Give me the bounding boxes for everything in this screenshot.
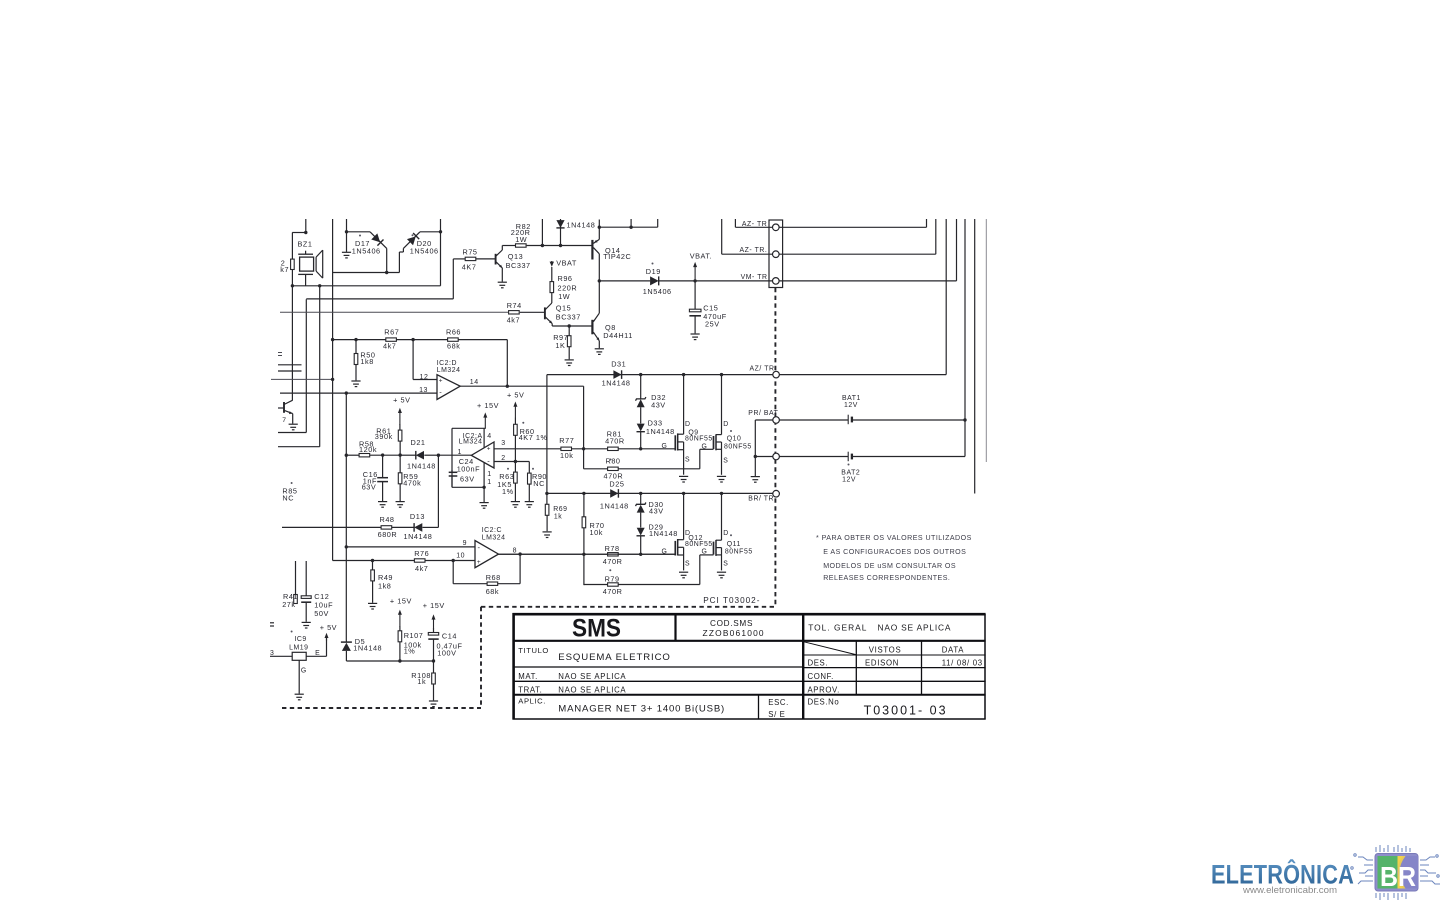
svg-text:TOL. GERAL: TOL. GERAL [808,623,867,633]
resistor R70 [583,493,585,516]
svg-text:4K7: 4K7 [462,262,477,271]
ground of Q11 [717,572,726,578]
wire BR/ TR vertical [974,219,976,494]
svg-text:1N4148: 1N4148 [404,532,433,541]
svg-text:R80: R80 [606,457,621,466]
svg-text:1k8: 1k8 [360,357,373,366]
svg-text:43V: 43V [649,506,664,515]
diode D33 [637,424,645,432]
svg-text:APROV.: APROV. [808,685,840,694]
svg-text:25V: 25V [705,320,720,329]
power +15V arrow at C14 [433,618,435,629]
node junction [398,453,401,456]
svg-text:D13: D13 [410,512,425,521]
svg-text:Q10: Q10 [727,436,742,443]
svg-text:80NF55: 80NF55 [724,444,752,451]
power +5V arrow at R60 [514,405,516,418]
wire D5 row [346,660,433,662]
ground of R59 [396,502,405,508]
capacitor C15 [694,281,696,309]
svg-text:+ 5V: + 5V [393,396,410,405]
transistor Q13 [495,254,497,265]
svg-text:VBAT: VBAT [556,259,577,268]
svg-text:1N4148: 1N4148 [649,529,678,538]
svg-text:D44H11: D44H11 [603,331,633,340]
svg-text:43V: 43V [651,401,666,410]
wire from R75 leg down to left stub [305,299,307,432]
wire long vertical x=332.6 [332,219,334,561]
svg-text:S: S [723,560,728,567]
ground of C15 [691,334,700,340]
resistor R48 [381,526,392,529]
svg-text:470R: 470R [603,557,623,566]
svg-text:4k7: 4k7 [415,564,428,573]
svg-text:1W: 1W [515,235,527,244]
svg-text:R66: R66 [446,327,461,336]
title block diagonal [804,642,856,655]
svg-text:NC: NC [533,479,545,488]
resistor R67 [333,339,386,341]
svg-text:G: G [301,667,307,674]
svg-text:7: 7 [282,417,286,424]
wire stub y=446.7 [278,446,320,448]
node junction [598,279,601,282]
wire AZ- TR net [734,219,736,227]
svg-text:10: 10 [456,553,465,560]
svg-text:1k8: 1k8 [378,582,391,591]
svg-text:ZZOB061000: ZZOB061000 [703,628,765,638]
svg-text:63V: 63V [362,483,377,492]
terminal battery tap [773,453,780,460]
ground of R50 [351,381,360,387]
svg-text:R75: R75 [463,247,478,256]
svg-text:R107: R107 [404,631,424,640]
svg-text:+: + [477,559,481,566]
svg-text:27k: 27k [282,600,295,609]
wire Q15 emitter to Q8 base [552,325,592,327]
terminal BR/ TR [773,490,780,497]
svg-text:R79: R79 [605,575,620,584]
svg-text:1k: 1k [554,513,562,520]
title block frame [513,613,986,616]
svg-text:4: 4 [487,433,491,440]
node junction [568,324,571,327]
svg-text:R69: R69 [553,506,567,513]
svg-text:R76: R76 [414,549,429,558]
svg-text:13: 13 [419,387,428,394]
svg-text:D19: D19 [646,267,661,276]
diode D13 [414,523,422,532]
svg-text:C14: C14 [442,631,457,640]
wire R79 to Q11 gate [699,555,701,585]
svg-text:D21: D21 [411,438,426,447]
svg-text:1N4148: 1N4148 [646,427,675,436]
capacitor C12 [305,561,307,596]
svg-text:S: S [685,561,690,568]
svg-text:Q13: Q13 [508,252,523,261]
node junction [541,244,544,247]
svg-text:G: G [702,549,708,556]
diode D31 [613,370,621,379]
resistor R108 [433,661,435,673]
stub mark at left edge [270,622,274,624]
resistor R60 [514,418,516,425]
svg-text:AZ/ TR: AZ/ TR [750,366,775,373]
wire IC9 G to ground [298,660,300,693]
node junction [963,418,966,421]
svg-text:R78: R78 [605,544,620,553]
resistor R66 [448,338,459,341]
node junction [598,226,601,229]
wire PR/BAT to ground net [755,419,773,421]
wire vertical x=319.7 [319,286,321,447]
svg-text:MODELOS DE uSM CONSULTAR OS: MODELOS DE uSM CONSULTAR OS [823,562,956,570]
svg-text:R96: R96 [558,274,573,283]
svg-text:+ 5V: + 5V [507,391,524,400]
stub marks at left edge [278,352,282,354]
svg-text:3: 3 [270,650,274,657]
svg-text:390k: 390k [375,432,393,441]
svg-text:S: S [723,457,728,464]
ground of IC9 [295,694,304,700]
wire AZ/ TR net [547,374,773,376]
svg-text:1N5406: 1N5406 [410,246,439,255]
svg-text:Q11: Q11 [727,541,741,548]
node junction [345,545,348,548]
wire IC2:D output [460,385,583,387]
svg-text:1k: 1k [417,677,426,686]
logo ELETRONICA BR [1211,845,1440,900]
connector box TR [769,220,783,288]
svg-text:9: 9 [463,540,467,547]
svg-text:BC337: BC337 [506,261,531,270]
svg-text:TITULO: TITULO [518,646,549,655]
ground of PR/BAT net [751,477,760,483]
svg-text:1N4148: 1N4148 [407,462,436,471]
svg-text:1: 1 [487,471,491,478]
wire to R75 leg [306,298,453,300]
svg-text:D: D [723,421,729,428]
svg-text:1: 1 [487,479,491,486]
zener diode D30 [636,503,646,507]
svg-text:COD.SMS: COD.SMS [710,619,753,628]
svg-text:120k: 120k [359,445,377,454]
svg-text:APLIC.: APLIC. [518,697,546,706]
wire stub y=379.4 [271,378,333,380]
scan edge vertical [985,219,987,462]
svg-text:80NF55: 80NF55 [685,541,713,548]
wire BAT1 vertical [964,219,966,457]
svg-text:AZ- TR: AZ- TR [742,221,767,228]
svg-text:LM324: LM324 [482,534,506,541]
wire VM- TR net right [779,280,956,282]
svg-text:1N5406: 1N5406 [352,246,381,255]
svg-text:RELEASES CORRESPONDENTES.: RELEASES CORRESPONDENTES. [823,574,950,582]
svg-text:80NF55: 80NF55 [725,549,753,556]
resistor R76 [414,559,425,562]
node junction [514,460,517,463]
svg-text:S/ E: S/ E [768,710,785,719]
svg-text:1W: 1W [558,292,570,301]
svg-text:50V: 50V [314,609,329,618]
svg-text:DES.No: DES.No [808,698,840,707]
svg-text:100nF: 100nF [457,464,480,473]
svg-text:R74: R74 [507,301,522,310]
wire IC2:A pin11 to ground [452,486,484,488]
diode D25 [610,489,618,498]
power +15V arrow at R107 [399,613,401,627]
power +5V arrow at IC9 [326,636,328,641]
wire vertical x=346.3 [345,393,347,640]
resistor R97 [568,326,570,336]
wire IC2:D pin12 [412,340,414,380]
node junction [754,455,757,458]
node junction [345,454,348,457]
svg-text:4K7 1%: 4K7 1% [519,433,548,442]
node junction [559,244,562,247]
wire D32/D33 chain [640,375,642,399]
svg-text:D: D [685,421,691,428]
svg-text:ESQUEMA ELETRICO: ESQUEMA ELETRICO [558,652,671,663]
node junction [331,338,334,341]
node junction [385,271,388,274]
svg-text:D33: D33 [648,418,663,427]
node junction [304,231,307,234]
svg-text:T03001- 03: T03001- 03 [864,704,948,718]
svg-text:BZ1: BZ1 [298,240,313,249]
MOSFET Q12 80NF55 [674,541,676,556]
op-amp IC2:A LM324 (mirrored) [471,442,494,468]
svg-text:k7: k7 [280,265,289,274]
ground of Q10 [717,476,726,482]
wire AZ/ TR right [779,374,946,376]
svg-text:SMS: SMS [572,615,621,643]
svg-text:11/ 08/ 03: 11/ 08/ 03 [942,659,983,668]
wire IC2:A pin2 net [494,461,529,463]
terminal AZ- TR [773,224,780,231]
op-amp IC2:D LM324 [437,375,460,400]
ground of R108 [429,701,438,707]
svg-text:68k: 68k [447,342,460,351]
svg-text:VISTOS: VISTOS [869,646,902,655]
svg-text:PR/ BAT: PR/ BAT [748,410,778,417]
wire R66 feedback corner [506,340,508,387]
capacitor C24 [451,470,453,472]
svg-text:LM324: LM324 [437,367,461,374]
svg-text:470R: 470R [603,587,623,596]
diode D17 [346,219,348,232]
svg-text:BAT1: BAT1 [842,395,861,402]
wire buzzer bottom [305,274,307,285]
svg-text:+ 15V: + 15V [423,601,445,610]
terminal VM- TR [773,278,780,285]
svg-text:+ 5V: + 5V [320,623,337,632]
resistor R69 [546,493,548,504]
svg-text:DES.: DES. [808,659,829,668]
node junction [371,559,374,562]
svg-text:680R: 680R [378,530,398,539]
wire IC2:A pin1 output to D21 [438,454,471,456]
resistor R49 [372,561,374,570]
wire AZ- TR. net [721,219,723,254]
svg-text:R77: R77 [559,436,574,445]
wire IC2:A pin4 supply [484,427,486,429]
svg-text:4k7: 4k7 [383,342,396,351]
svg-text:CONF.: CONF. [808,672,834,681]
svg-text:G: G [662,443,668,450]
svg-text:1%: 1% [502,487,514,496]
svg-text:NAO SE APLICA: NAO SE APLICA [558,672,626,681]
node junction [582,447,585,450]
svg-text:NAO SE APLICA: NAO SE APLICA [878,623,952,633]
svg-text:IC2:C: IC2:C [482,527,502,534]
node junction [506,385,509,388]
node junction [639,553,642,556]
zener diode D32 [636,397,646,401]
node junction [639,447,642,450]
svg-text:10k: 10k [590,528,603,537]
wire IC2:D pin13 from left [280,392,346,394]
svg-text:PCI T03002-: PCI T03002- [703,596,760,605]
ground of IC2:A pin11 [480,503,489,509]
svg-text:+: + [487,445,491,452]
power +5V arrow at R61 [399,411,401,425]
svg-text:VBAT.: VBAT. [690,251,713,260]
svg-text:D25: D25 [609,480,624,489]
resistor R41 (cut) [295,561,297,595]
ground of Q12 [679,572,688,578]
resistor R96 [551,267,553,282]
svg-text:14: 14 [470,379,479,386]
resistor R42 (cut label) [291,233,293,260]
capacitor C14 [433,628,435,632]
svg-text:BR: BR [1380,861,1416,892]
svg-text:1K: 1K [555,341,565,350]
node junction [693,279,696,282]
svg-text:+ 15V: + 15V [390,597,412,606]
svg-text:NAO SE APLICA: NAO SE APLICA [558,685,626,694]
buzzer BZ1 [298,253,313,255]
svg-text:+ 15V: + 15V [477,401,499,410]
svg-text:DATA: DATA [942,646,965,655]
wire IC9 E to +5V [306,655,326,657]
svg-text:1N4148: 1N4148 [602,379,631,388]
svg-text:1N4148: 1N4148 [567,220,596,229]
svg-text:* PARA OBTER OS VALORES UTILIZ: * PARA OBTER OS VALORES UTILIZADOS [816,534,972,542]
ground of cut transistor [289,424,298,430]
svg-text:+: + [439,377,443,384]
ground of Q13 [498,282,507,288]
diode D29 [637,528,645,536]
MOSFET Q10 80NF55 [713,436,715,449]
svg-text:MAT.: MAT. [518,672,538,681]
svg-text:NC: NC [282,494,294,503]
node junction [437,454,440,457]
svg-text:12V: 12V [844,402,858,409]
svg-text:E AS CONFIGURACOES DOS OUTROS: E AS CONFIGURACOES DOS OUTROS [823,548,966,556]
svg-text:470k: 470k [403,478,421,487]
ground of D17 net [346,232,348,252]
svg-text:12V: 12V [842,476,856,483]
svg-text:R68: R68 [486,573,501,582]
terminal AZ- TR. [773,251,780,258]
svg-text:63V: 63V [460,474,475,483]
svg-text:1%: 1% [404,647,416,656]
svg-text:VM- TR: VM- TR [741,274,768,281]
svg-text:IC9: IC9 [294,636,306,643]
diode D26 1N4148 top [560,219,562,246]
wire D17/D20 box bottom [333,272,400,274]
ground of C12 [302,622,311,628]
power VBAT. arrow at C15 [694,265,696,281]
battery BAT2 12V [779,456,848,458]
wire R80 to Q10 gate [699,449,701,469]
svg-text:R49: R49 [378,573,393,582]
dashed boundary PCI board [282,288,775,708]
svg-text:www.eletronicabr.com: www.eletronicabr.com [1242,885,1337,895]
svg-text:MANAGER NET 3+ 1400 Bi(USB): MANAGER NET 3+ 1400 Bi(USB) [558,704,725,715]
svg-text:10k: 10k [560,451,573,460]
resistor R61 [399,424,401,430]
MOSFET Q9 80NF55 [674,435,676,450]
ground of R69 [543,532,552,538]
svg-text:1N4148: 1N4148 [600,501,629,510]
wire [541,219,543,246]
resistor R78 [499,553,608,555]
transistor Q8 D44H11 [591,320,593,335]
svg-text:1N5406: 1N5406 [643,287,672,296]
power VBAT arrow at R96 [550,262,554,267]
node junction [318,284,321,287]
node junction [582,553,585,556]
wire D30/D29 chain [640,493,642,504]
resistor R82 [502,245,515,247]
MOSFET Q11 80NF55 [713,542,715,555]
wire top supply net [599,226,657,228]
svg-text:68k: 68k [486,587,499,596]
node junction [452,559,455,562]
transistor Q (cut, partial) [283,402,285,413]
wire [305,219,307,233]
svg-text:R48: R48 [380,515,395,524]
svg-text:LM19: LM19 [289,645,308,652]
wire D13 up to IC2:A pin1 node [437,455,439,527]
wire IC2:D output to R80 row [583,386,585,469]
svg-text:TRAT.: TRAT. [518,685,542,694]
ground of Q8 [595,349,604,355]
svg-text:D31: D31 [611,360,626,369]
svg-text:4k7: 4k7 [507,316,520,325]
ground of R97 [565,360,574,366]
svg-text:LM324: LM324 [459,438,483,445]
resistor R59 [399,455,401,473]
regulator IC9 LM19 [292,652,306,660]
resistor R80 [584,468,608,470]
terminal PR/ BAT [773,417,780,424]
node junction [331,378,334,381]
resistor R50 [355,340,357,354]
node junction [345,391,348,394]
resistor R74 [280,311,508,313]
resistor R79 [584,584,608,586]
node junction [398,659,401,662]
diode D19 [599,280,650,282]
diode D5 [345,641,347,643]
resistor R58 [346,454,359,456]
op-amp IC2:C LM324 [475,541,499,568]
wire IC2:C output [499,553,676,555]
battery BAT1 12V [779,419,848,421]
